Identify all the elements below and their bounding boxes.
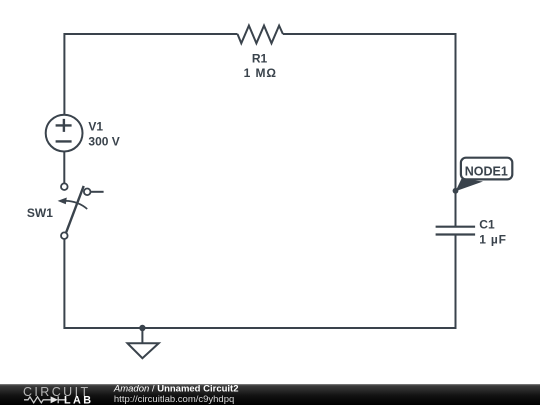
svg-text:R1: R1: [252, 52, 268, 66]
logo circuit glyph (resistor + diode): [24, 397, 51, 403]
switch SW1 throw terminal: [84, 189, 91, 196]
ground symbol: [141, 328, 143, 343]
wire top-left: V1 top up to corner and across to R1: [64, 34, 237, 115]
svg-text:1 µF: 1 µF: [479, 233, 506, 247]
footer bar: [0, 384, 540, 405]
svg-text:http://circuitlab.com/c9yhdpq: http://circuitlab.com/c9yhdpq: [114, 394, 234, 405]
svg-text:SW1: SW1: [27, 206, 53, 220]
resistor R1: [238, 26, 283, 44]
svg-text:C1: C1: [479, 217, 495, 231]
wire bottom-left: ground junction to SW1 bottom: [64, 239, 142, 328]
wire right-bottom: C1 down and across bottom to ground junction: [142, 235, 455, 329]
capacitor C1 bottom plate: [436, 233, 476, 235]
wire top-right: R1 across, down right side to C1 top plate: [283, 34, 456, 227]
switch SW1 blade: [66, 186, 84, 232]
ground junction dot: [139, 325, 145, 331]
svg-text:300 V: 300 V: [88, 135, 119, 149]
V1 plus sign: [56, 119, 72, 132]
switch SW1 top terminal: [61, 183, 68, 190]
V1 minus sign: [56, 140, 72, 142]
svg-text:NODE1: NODE1: [465, 165, 508, 179]
switch SW1 arrowhead: [58, 198, 67, 205]
switch SW1 motion arc: [66, 201, 87, 209]
voltage source V1 circle: [46, 115, 83, 152]
node NODE1 box: [461, 158, 512, 180]
svg-text:V1: V1: [88, 120, 103, 134]
switch SW1 throw stub wire: [91, 191, 104, 193]
svg-text:LAB: LAB: [64, 394, 93, 405]
svg-text:1 MΩ: 1 MΩ: [244, 66, 277, 80]
switch SW1 bottom terminal: [61, 232, 68, 239]
wire: V1 bottom to SW1 top terminal: [63, 151, 65, 183]
node NODE1 junction dot: [453, 188, 459, 194]
capacitor C1 top plate: [436, 226, 476, 228]
node NODE1 callout tail: [456, 179, 484, 192]
